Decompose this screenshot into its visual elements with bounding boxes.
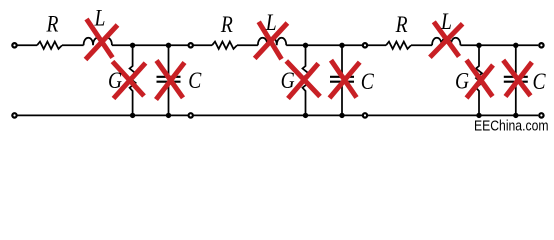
wire top rail section 3 lead-in <box>365 44 386 46</box>
red X over L3 <box>430 22 463 58</box>
resistor R2 <box>212 42 237 49</box>
red X over C1 <box>156 61 185 100</box>
junction G3 top <box>476 43 481 48</box>
wire L1 to node, across G1/C1 junctions to section boundary <box>112 44 191 46</box>
wire L2 across G2/C2 junctions to section boundary <box>286 44 365 46</box>
red X over C2 <box>330 60 360 98</box>
capacitor C3 top lead <box>515 45 517 75</box>
conductance G1 (vertical resistor branch) <box>130 45 136 115</box>
wire bottom return rail <box>18 114 539 116</box>
svg-text:EEChina.com: EEChina.com <box>474 118 549 135</box>
svg-text:C: C <box>188 68 202 94</box>
conductance G3 (vertical resistor branch) <box>476 45 482 115</box>
wire R3 to L3 <box>411 44 432 46</box>
junction G2 bottom <box>303 113 308 118</box>
terminal output top <box>539 43 543 47</box>
svg-text:R: R <box>220 11 233 37</box>
wire top rail section 1 lead-in <box>18 44 38 46</box>
inductor L2 <box>258 38 286 46</box>
red X over L2 <box>255 22 288 59</box>
capacitor C1 plates <box>157 77 181 82</box>
node B bottom <box>363 113 367 117</box>
capacitor C3 bottom lead <box>515 83 517 116</box>
capacitor C1 bottom lead <box>168 83 170 116</box>
resistor R1 <box>37 42 62 49</box>
svg-text:L: L <box>94 5 106 31</box>
red X over L1 <box>86 19 118 60</box>
junction C2 bottom <box>339 113 344 118</box>
capacitor C3 plates <box>504 77 528 82</box>
node B top (section 2/3 boundary) <box>363 43 367 47</box>
svg-text:L: L <box>265 9 277 35</box>
svg-text:C: C <box>532 68 546 94</box>
capacitor C2 bottom lead <box>341 83 343 116</box>
junction C3 top <box>513 43 518 48</box>
wire L3 to right output terminal <box>460 44 538 46</box>
junction C2 top <box>339 43 344 48</box>
red X over C3 <box>503 60 532 96</box>
svg-text:R: R <box>395 11 408 37</box>
junction G1 bottom <box>130 113 135 118</box>
node A top (section 1/2 boundary) <box>189 43 193 47</box>
resistor R3 <box>386 42 411 49</box>
svg-text:G: G <box>455 68 469 94</box>
red X over G1 <box>113 62 146 99</box>
svg-text:L: L <box>440 9 452 35</box>
inductor L3 <box>432 38 460 46</box>
terminal input bottom <box>12 113 16 117</box>
red X over G3 <box>467 60 494 98</box>
conductance G2 (vertical resistor branch) <box>303 45 309 115</box>
wire R1 to L1 <box>62 44 84 46</box>
junction C3 bottom <box>513 113 518 118</box>
red X over G2 <box>286 61 320 99</box>
capacitor C1 top lead <box>168 45 170 75</box>
junction G1 top <box>130 43 135 48</box>
wire R2 to L2 <box>237 44 258 46</box>
node A bottom <box>189 113 193 117</box>
terminal input top <box>12 43 16 47</box>
wire top rail section 2 lead-in <box>191 44 212 46</box>
svg-text:G: G <box>108 68 122 94</box>
inductor L1 <box>84 38 112 46</box>
junction C1 bottom <box>166 113 171 118</box>
terminal output bottom <box>539 113 543 117</box>
capacitor C2 top lead <box>341 45 343 75</box>
junction G3 bottom <box>476 113 481 118</box>
junction G2 top <box>303 43 308 48</box>
svg-text:G: G <box>281 68 295 94</box>
capacitor C2 plates <box>330 77 354 82</box>
svg-text:R: R <box>46 11 59 37</box>
junction C1 top <box>166 43 171 48</box>
svg-text:C: C <box>361 68 375 94</box>
